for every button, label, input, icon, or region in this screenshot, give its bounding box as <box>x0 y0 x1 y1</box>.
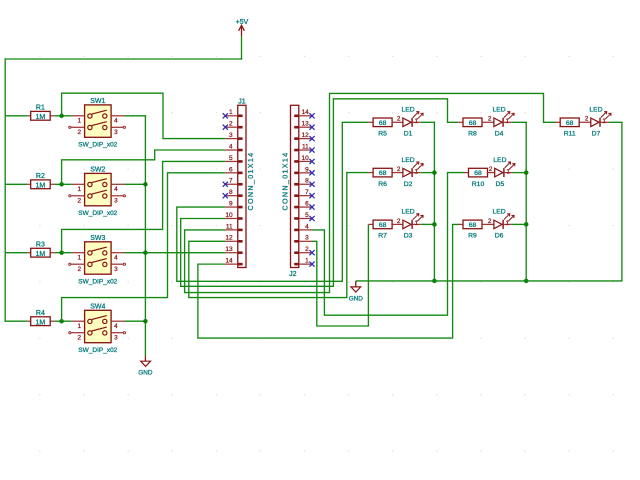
svg-text:2: 2 <box>397 218 401 225</box>
svg-text:13: 13 <box>301 121 309 128</box>
wire net R2 to J1 pin4 <box>62 150 226 184</box>
no-connect flag J2 pin8 <box>309 182 314 187</box>
svg-text:8: 8 <box>305 178 309 185</box>
svg-text:1: 1 <box>506 220 510 227</box>
wire +5V bus to R1 <box>5 115 27 117</box>
svg-text:2: 2 <box>78 129 82 136</box>
svg-text:14: 14 <box>225 258 233 265</box>
svg-text:12: 12 <box>225 235 233 242</box>
wire +5V left bus <box>4 58 6 322</box>
connector J2 CONN_01X14 <box>280 105 312 278</box>
svg-text:12: 12 <box>301 132 309 139</box>
wire net R3 row to J1 pin13 <box>145 252 225 254</box>
LED D1 <box>392 107 423 138</box>
node R2/SW2 junction <box>59 182 64 187</box>
svg-text:68: 68 <box>469 120 477 127</box>
switch SW3 SW_DIP_x02 <box>69 235 126 286</box>
svg-text:2: 2 <box>305 246 309 253</box>
svg-text:2: 2 <box>78 198 82 205</box>
svg-text:R9: R9 <box>468 233 477 240</box>
svg-text:2: 2 <box>488 116 492 123</box>
no-connect flag J1 pin7 <box>223 182 228 187</box>
switch SW1 SW_DIP_x02 <box>69 98 126 149</box>
node D5 junction <box>524 170 529 175</box>
resistor R1 1M <box>27 105 55 122</box>
svg-text:10: 10 <box>225 212 233 219</box>
resistor R11 68 <box>556 118 580 138</box>
no-connect flag J2 pin13 <box>309 125 314 130</box>
wire R1 to SW1 pin1 <box>55 115 72 117</box>
wire net J1 pin11 to R11 <box>185 93 556 292</box>
svg-text:14: 14 <box>301 109 309 116</box>
svg-text:1: 1 <box>78 255 82 262</box>
svg-text:SW_DIP_x02: SW_DIP_x02 <box>78 142 117 149</box>
resistor R8 68 <box>458 118 482 138</box>
LED D7 <box>579 107 611 138</box>
svg-text:LED: LED <box>492 107 505 114</box>
svg-text:D4: D4 <box>495 131 504 138</box>
svg-text:11: 11 <box>302 143 309 150</box>
svg-text:2: 2 <box>488 218 492 225</box>
wire net J1 pin9 to R5 <box>177 122 369 281</box>
svg-text:2: 2 <box>585 116 589 123</box>
wire R3 to SW3 pin1 <box>55 252 72 254</box>
svg-text:SW2: SW2 <box>90 166 105 173</box>
resistor R6 68 <box>368 168 392 188</box>
no-connect flag J2 pin6 <box>309 204 314 209</box>
wire +5V bus to R2 <box>5 183 27 185</box>
wire D4 cathode <box>512 121 527 123</box>
svg-text:CONN_01X14: CONN_01X14 <box>280 152 289 211</box>
no-connect flag J2 pin12 <box>309 136 314 141</box>
wire D5 cathode <box>513 172 527 174</box>
wire net R1 to J1 pin3 <box>62 93 226 138</box>
wire GND bus vertical <box>144 116 146 356</box>
svg-text:J2: J2 <box>289 271 297 278</box>
wire D7 cathode <box>609 121 623 123</box>
no-connect flag J1 pin2 <box>223 125 228 130</box>
wire GND horizontal run <box>356 280 623 282</box>
svg-text:2: 2 <box>397 116 401 123</box>
svg-text:4: 4 <box>305 223 309 230</box>
wire R2 to SW2 pin1 <box>55 183 72 185</box>
svg-text:GND: GND <box>138 370 153 377</box>
resistor R9 68 <box>458 220 482 240</box>
svg-text:68: 68 <box>379 222 387 229</box>
node column2/GND junction <box>524 279 529 284</box>
resistor R7 68 <box>368 220 392 240</box>
svg-text:R4: R4 <box>36 310 45 317</box>
node D3 junction <box>432 222 437 227</box>
no-connect flag J2 pin9 <box>309 170 314 175</box>
wire SW3 pin4 to GND bus <box>125 252 147 254</box>
no-connect flag J2 pin2 <box>309 250 314 255</box>
svg-text:3: 3 <box>114 198 118 205</box>
svg-text:R3: R3 <box>36 242 45 249</box>
switch SW4 SW_DIP_x02 <box>69 303 126 354</box>
svg-text:GND: GND <box>349 295 364 302</box>
svg-text:4: 4 <box>229 143 233 150</box>
svg-text:D2: D2 <box>404 181 413 188</box>
svg-text:D5: D5 <box>496 181 505 188</box>
no-connect flag J2 pin10 <box>309 159 314 164</box>
svg-text:R8: R8 <box>468 131 477 138</box>
svg-text:8: 8 <box>229 189 233 196</box>
resistor R4 1M <box>27 310 55 327</box>
svg-text:1M: 1M <box>36 183 46 190</box>
svg-text:+5V: +5V <box>236 19 249 26</box>
svg-text:LED: LED <box>401 209 414 216</box>
no-connect flag J2 pin5 <box>309 216 314 221</box>
svg-text:2: 2 <box>78 266 82 273</box>
wire net J1 pin10 to R8 <box>181 99 459 286</box>
svg-text:6: 6 <box>229 166 233 173</box>
node R1/SW1 junction <box>59 114 64 119</box>
node GND bus junction <box>143 182 148 187</box>
no-connect flag J2 pin14 <box>309 113 314 118</box>
svg-text:R6: R6 <box>378 181 387 188</box>
node D6 junction <box>524 222 529 227</box>
switch SW2 SW_DIP_x02 <box>69 166 126 217</box>
svg-text:1: 1 <box>78 118 82 125</box>
wire column2 cathode bus <box>525 122 527 281</box>
node GND bus junction <box>143 250 148 255</box>
svg-text:R7: R7 <box>378 233 387 240</box>
svg-text:4: 4 <box>114 118 118 125</box>
svg-text:D1: D1 <box>404 131 413 138</box>
svg-text:R10: R10 <box>472 181 485 188</box>
svg-text:4: 4 <box>114 255 118 262</box>
wire +5V stem <box>241 36 243 59</box>
svg-text:SW_DIP_x02: SW_DIP_x02 <box>78 347 117 354</box>
svg-text:LED: LED <box>493 157 506 164</box>
svg-text:7: 7 <box>229 178 233 185</box>
wire D3 cathode <box>421 223 435 225</box>
svg-text:4: 4 <box>114 323 118 330</box>
svg-text:2: 2 <box>229 121 233 128</box>
svg-text:SW_DIP_x02: SW_DIP_x02 <box>78 210 117 217</box>
node R4/SW4 junction <box>59 319 64 324</box>
ground GND1 <box>138 356 153 376</box>
svg-text:6: 6 <box>305 200 309 207</box>
svg-text:3: 3 <box>114 335 118 342</box>
wire +5V bus to R3 <box>5 252 27 254</box>
wire net J1 pin14 to R9 <box>198 224 459 338</box>
svg-text:LED: LED <box>589 107 602 114</box>
svg-text:3: 3 <box>114 266 118 273</box>
resistor R2 1M <box>27 173 55 190</box>
svg-text:1M: 1M <box>36 320 46 327</box>
wire net R4 to J1 pin6 <box>62 173 226 321</box>
ground GND2 <box>349 281 364 303</box>
svg-text:R11: R11 <box>564 131 576 138</box>
svg-text:LED: LED <box>492 209 505 216</box>
svg-text:SW3: SW3 <box>90 235 105 242</box>
wire net J1 pin12 to R6 <box>189 173 369 298</box>
svg-text:5: 5 <box>305 212 309 219</box>
wire net J2 pin3 to R7 <box>312 224 368 326</box>
LED D6 <box>482 209 514 240</box>
svg-text:R5: R5 <box>378 131 387 138</box>
wire +5V bus to R4 <box>5 320 27 322</box>
svg-text:1: 1 <box>415 168 419 175</box>
svg-text:D3: D3 <box>404 233 413 240</box>
wire SW1 pin4 to GND bus <box>125 115 147 117</box>
resistor R5 68 <box>368 118 392 138</box>
svg-text:1: 1 <box>305 258 309 265</box>
wire SW2 pin4 to GND bus <box>125 183 147 185</box>
wire D1 cathode <box>421 121 435 123</box>
node column1/GND junction <box>432 279 437 284</box>
LED D4 <box>482 107 514 138</box>
svg-text:D7: D7 <box>592 131 601 138</box>
wire D2 cathode <box>421 172 435 174</box>
LED D3 <box>392 209 423 240</box>
svg-text:R1: R1 <box>36 105 45 112</box>
connector J1 CONN_01X14 <box>225 98 255 267</box>
svg-text:1: 1 <box>506 118 510 125</box>
svg-text:SW1: SW1 <box>90 98 105 105</box>
svg-text:2: 2 <box>397 166 401 173</box>
svg-text:1: 1 <box>415 220 419 227</box>
wire net J2 pin4 to R10 <box>312 173 464 316</box>
svg-text:5: 5 <box>229 155 233 162</box>
LED D5 <box>488 157 515 188</box>
node GND bus junction <box>143 319 148 324</box>
wire D6 cathode <box>512 223 527 225</box>
wire column1 cathode bus <box>433 122 435 281</box>
svg-text:LED: LED <box>401 107 414 114</box>
svg-text:D6: D6 <box>495 233 504 240</box>
svg-text:1: 1 <box>415 118 419 125</box>
svg-text:3: 3 <box>305 235 309 242</box>
svg-text:J1: J1 <box>238 98 246 105</box>
svg-text:1: 1 <box>229 109 233 116</box>
svg-text:2: 2 <box>489 166 493 173</box>
svg-text:LED: LED <box>401 157 414 164</box>
node R3/SW3 junction <box>59 250 64 255</box>
svg-text:1: 1 <box>506 168 510 175</box>
svg-text:3: 3 <box>114 129 118 136</box>
svg-text:68: 68 <box>379 120 387 127</box>
wire net R3 to J1 pin5 <box>62 161 226 252</box>
svg-text:7: 7 <box>305 189 309 196</box>
no-connect flag J1 pin1 <box>223 113 228 118</box>
svg-text:4: 4 <box>114 186 118 193</box>
wire SW4 pin4 to GND bus <box>125 320 147 322</box>
resistor R10 68 <box>464 168 488 188</box>
no-connect flag J1 pin8 <box>223 193 228 198</box>
svg-text:R2: R2 <box>36 173 45 180</box>
svg-text:1M: 1M <box>36 251 46 258</box>
no-connect flag J2 pin1 <box>309 262 314 267</box>
svg-text:1M: 1M <box>36 114 46 121</box>
LED D2 <box>392 157 423 188</box>
svg-text:10: 10 <box>301 155 309 162</box>
wire +5V top horizontal <box>5 58 242 60</box>
svg-text:11: 11 <box>226 223 233 230</box>
no-connect flag J2 pin7 <box>309 193 314 198</box>
svg-text:68: 68 <box>474 170 482 177</box>
svg-text:1: 1 <box>78 323 82 330</box>
wire R4 to SW4 pin1 <box>55 320 72 322</box>
wire column3 cathode bus <box>621 122 623 281</box>
svg-text:1: 1 <box>78 186 82 193</box>
svg-text:3: 3 <box>229 132 233 139</box>
resistor R3 1M <box>27 242 55 259</box>
node D2 junction <box>432 170 437 175</box>
svg-text:68: 68 <box>469 222 477 229</box>
svg-text:2: 2 <box>78 335 82 342</box>
svg-text:SW4: SW4 <box>90 303 105 310</box>
svg-text:68: 68 <box>379 170 387 177</box>
svg-text:9: 9 <box>229 200 233 207</box>
no-connect flag J2 pin11 <box>309 147 314 152</box>
svg-text:1: 1 <box>602 118 606 125</box>
power symbol +5V <box>236 19 249 37</box>
svg-text:9: 9 <box>305 166 309 173</box>
svg-text:68: 68 <box>566 120 574 127</box>
svg-text:CONN_01X14: CONN_01X14 <box>246 152 255 211</box>
svg-text:13: 13 <box>225 246 233 253</box>
svg-text:SW_DIP_x02: SW_DIP_x02 <box>78 278 117 285</box>
